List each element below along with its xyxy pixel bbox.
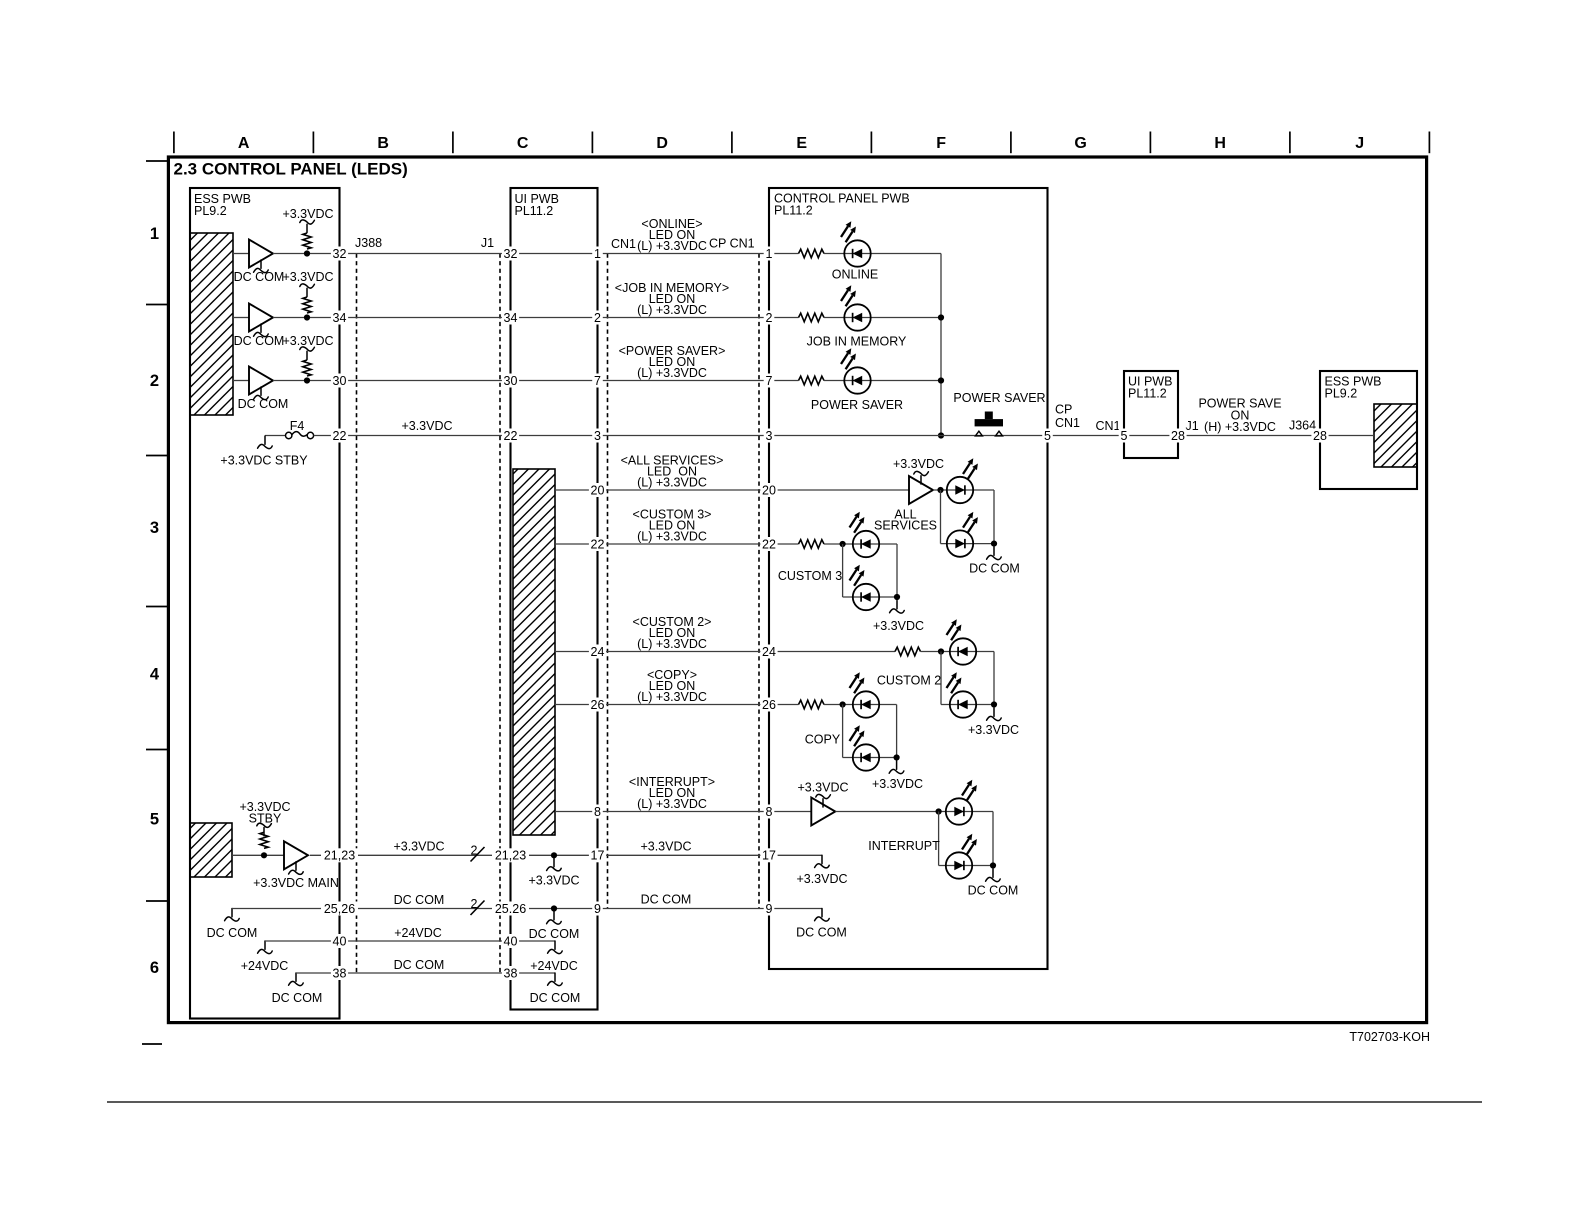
svg-text:17: 17 [762, 849, 776, 863]
svg-text:+3.3VDC: +3.3VDC [282, 270, 333, 284]
svg-text:PL11.2: PL11.2 [1128, 387, 1167, 401]
svg-text:2: 2 [471, 844, 478, 858]
svg-text:3: 3 [150, 519, 159, 537]
svg-text:28: 28 [1171, 429, 1185, 443]
svg-text:INTERRUPT: INTERRUPT [868, 839, 940, 853]
svg-text:22: 22 [762, 537, 776, 551]
svg-text:JOB IN MEMORY: JOB IN MEMORY [807, 335, 907, 349]
svg-text:21,23: 21,23 [324, 849, 355, 863]
svg-text:28: 28 [1313, 429, 1327, 443]
svg-text:DC COM: DC COM [529, 927, 580, 941]
svg-text:9: 9 [594, 902, 601, 916]
svg-text:J1: J1 [1186, 419, 1199, 433]
svg-text:B: B [377, 135, 389, 152]
svg-text:4: 4 [150, 666, 160, 684]
svg-text:22: 22 [504, 429, 518, 443]
svg-text:CP CN1: CP CN1 [709, 237, 755, 251]
svg-text:22: 22 [591, 537, 605, 551]
svg-text:C: C [517, 135, 529, 152]
svg-text:2: 2 [150, 372, 159, 390]
svg-text:DC COM: DC COM [394, 958, 445, 972]
svg-text:PL9.2: PL9.2 [1325, 387, 1358, 401]
svg-text:DC COM: DC COM [530, 991, 581, 1005]
svg-text:CN1: CN1 [1095, 419, 1120, 433]
svg-text:CUSTOM 3: CUSTOM 3 [778, 569, 842, 583]
svg-text:J: J [1355, 135, 1364, 152]
svg-text:DC COM: DC COM [969, 562, 1020, 576]
svg-text:3: 3 [766, 429, 773, 443]
svg-text:(L) +3.3VDC: (L) +3.3VDC [637, 690, 707, 704]
svg-text:40: 40 [504, 934, 518, 948]
svg-text:DC COM: DC COM [207, 926, 258, 940]
svg-text:25.26: 25.26 [495, 902, 526, 916]
svg-text:PL9.2: PL9.2 [194, 204, 227, 218]
svg-text:17: 17 [591, 849, 605, 863]
svg-text:+24VDC: +24VDC [241, 959, 289, 973]
svg-text:SERVICES: SERVICES [874, 519, 937, 533]
svg-text:1: 1 [766, 247, 773, 261]
svg-text:24: 24 [762, 645, 776, 659]
svg-text:+3.3VDC STBY: +3.3VDC STBY [220, 454, 308, 468]
svg-text:1: 1 [150, 225, 159, 243]
svg-text:+24VDC: +24VDC [394, 926, 442, 940]
svg-text:26: 26 [591, 698, 605, 712]
svg-text:24: 24 [591, 645, 605, 659]
svg-text:DC COM: DC COM [238, 397, 289, 411]
svg-text:34: 34 [504, 311, 518, 325]
svg-text:30: 30 [333, 374, 347, 388]
svg-text:PL11.2: PL11.2 [774, 204, 813, 218]
svg-text:DC COM: DC COM [968, 884, 1019, 898]
svg-text:40: 40 [333, 934, 347, 948]
svg-text:2: 2 [766, 311, 773, 325]
svg-text:38: 38 [333, 966, 347, 980]
svg-text:DC COM: DC COM [234, 334, 285, 348]
svg-text:(H) +3.3VDC: (H) +3.3VDC [1204, 420, 1276, 434]
svg-text:9: 9 [766, 902, 773, 916]
svg-text:20: 20 [762, 483, 776, 497]
svg-text:(L) +3.3VDC: (L) +3.3VDC [637, 366, 707, 380]
svg-text:+24VDC: +24VDC [530, 959, 578, 973]
svg-text:6: 6 [150, 959, 159, 977]
svg-text:7: 7 [766, 374, 773, 388]
svg-text:+3.3VDC: +3.3VDC [528, 874, 579, 888]
svg-text:5: 5 [150, 810, 159, 828]
svg-text:20: 20 [591, 483, 605, 497]
svg-text:3: 3 [594, 429, 601, 443]
svg-text:30: 30 [504, 374, 518, 388]
svg-text:(L) +3.3VDC: (L) +3.3VDC [637, 797, 707, 811]
svg-text:25,26: 25,26 [324, 902, 355, 916]
svg-text:CN1: CN1 [1055, 416, 1080, 430]
svg-text:+3.3VDC: +3.3VDC [393, 840, 444, 854]
svg-text:+3.3VDC: +3.3VDC [873, 619, 924, 633]
svg-text:DC COM: DC COM [394, 893, 445, 907]
svg-text:+3.3VDC: +3.3VDC [797, 781, 848, 795]
svg-text:26: 26 [762, 698, 776, 712]
svg-text:T702703-KOH: T702703-KOH [1349, 1030, 1430, 1044]
svg-text:38: 38 [504, 966, 518, 980]
svg-text:+3.3VDC: +3.3VDC [282, 207, 333, 221]
svg-text:DC COM: DC COM [641, 893, 692, 907]
svg-text:CN1: CN1 [611, 237, 636, 251]
svg-text:POWER SAVER: POWER SAVER [953, 391, 1045, 405]
svg-text:2.3 CONTROL PANEL (LEDS): 2.3 CONTROL PANEL (LEDS) [174, 160, 408, 179]
svg-text:+3.3VDC MAIN: +3.3VDC MAIN [253, 876, 339, 890]
svg-text:DC COM: DC COM [796, 926, 847, 940]
svg-text:+3.3VDC: +3.3VDC [968, 723, 1019, 737]
svg-text:8: 8 [594, 805, 601, 819]
svg-text:CP: CP [1055, 403, 1072, 417]
svg-text:F: F [936, 135, 946, 152]
svg-text:7: 7 [594, 374, 601, 388]
svg-text:(L) +3.3VDC: (L) +3.3VDC [637, 476, 707, 490]
svg-text:(L) +3.3VDC: (L) +3.3VDC [637, 530, 707, 544]
svg-text:5: 5 [1121, 429, 1128, 443]
svg-text:A: A [238, 135, 250, 152]
svg-text:J388: J388 [355, 236, 382, 250]
svg-text:J1: J1 [481, 236, 494, 250]
svg-text:G: G [1074, 135, 1086, 152]
svg-text:D: D [656, 135, 668, 152]
svg-text:POWER SAVER: POWER SAVER [811, 398, 903, 412]
svg-text:2: 2 [594, 311, 601, 325]
svg-text:+3.3VDC: +3.3VDC [796, 872, 847, 886]
svg-text:+3.3VDC: +3.3VDC [401, 419, 452, 433]
svg-text:CUSTOM 2: CUSTOM 2 [877, 674, 941, 688]
svg-text:(L) +3.3VDC: (L) +3.3VDC [637, 239, 707, 253]
svg-text:+3.3VDC: +3.3VDC [640, 840, 691, 854]
svg-text:ONLINE: ONLINE [832, 268, 879, 282]
svg-text:+3.3VDC: +3.3VDC [893, 457, 944, 471]
svg-text:E: E [796, 135, 807, 152]
svg-text:DC COM: DC COM [272, 991, 323, 1005]
svg-text:H: H [1214, 135, 1226, 152]
svg-text:5: 5 [1044, 429, 1051, 443]
svg-text:(L) +3.3VDC: (L) +3.3VDC [637, 303, 707, 317]
svg-text:F4: F4 [290, 419, 305, 433]
svg-text:8: 8 [766, 805, 773, 819]
svg-text:(L) +3.3VDC: (L) +3.3VDC [637, 637, 707, 651]
svg-text:32: 32 [504, 247, 518, 261]
svg-text:STBY: STBY [249, 812, 282, 826]
svg-text:34: 34 [333, 311, 347, 325]
svg-text:+3.3VDC: +3.3VDC [282, 334, 333, 348]
svg-text:1: 1 [594, 247, 601, 261]
svg-text:22: 22 [333, 429, 347, 443]
svg-text:COPY: COPY [805, 733, 841, 747]
svg-text:2: 2 [471, 897, 478, 911]
svg-text:PL11.2: PL11.2 [515, 204, 554, 218]
svg-text:32: 32 [333, 247, 347, 261]
svg-text:DC COM: DC COM [234, 270, 285, 284]
svg-text:+3.3VDC: +3.3VDC [872, 777, 923, 791]
svg-text:21,23: 21,23 [495, 849, 526, 863]
